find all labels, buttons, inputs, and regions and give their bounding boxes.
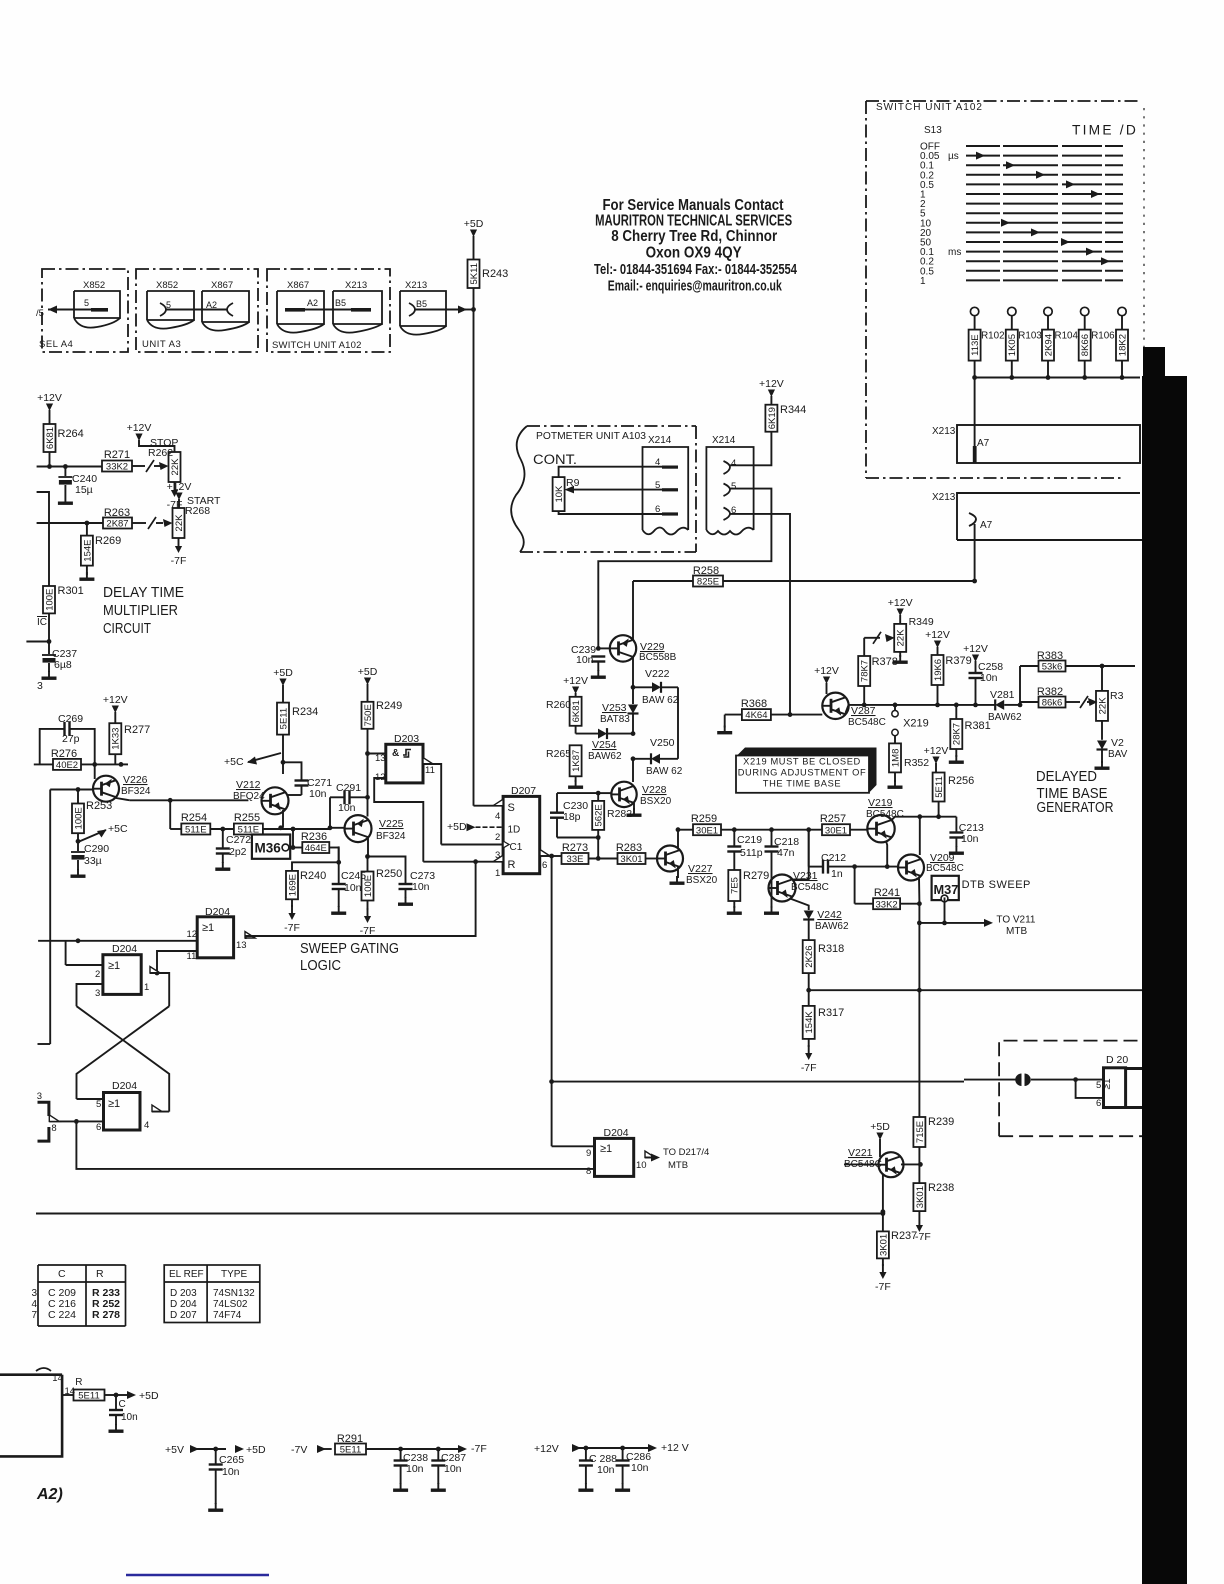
svg-text:S: S [508,802,515,814]
arrow TO V211 MTB [919,922,984,924]
svg-text:10n: 10n [597,1464,615,1476]
svg-text:10n: 10n [338,802,356,814]
resistor R352 1M8 [894,736,896,744]
svg-text:R237: R237 [891,1230,917,1242]
svg-text:BC548C: BC548C [791,882,829,893]
transistor V212 BFQ24 [282,762,284,774]
resistor R382 86k6 [1019,702,1021,705]
resistor R104 2K94 [1042,330,1054,361]
svg-text:R: R [508,859,516,871]
left spine elbow [38,1043,51,1045]
power -7F under R250 [367,908,369,916]
svg-text:+12V: +12V [925,629,950,641]
svg-text:R273: R273 [562,842,588,854]
svg-text:1n: 1n [831,868,843,880]
resistor R269 154E [86,523,88,536]
svg-text:X213: X213 [405,280,427,291]
svg-text:33µ: 33µ [84,855,102,867]
svg-text:R253: R253 [86,800,112,812]
svg-text:464E: 464E [305,843,327,854]
svg-text:D203: D203 [394,733,419,745]
ground under R279 [733,906,735,912]
svg-text:R249: R249 [376,700,402,712]
svg-text:D 207: D 207 [170,1310,197,1321]
wire node at R264 bottom [37,466,102,468]
capacitor C219 511p [733,830,735,846]
ground under C273 [405,897,407,903]
svg-text:TIME /D: TIME /D [1072,123,1138,138]
svg-text:100E: 100E [44,589,55,611]
capacitor C245 10n [338,846,340,883]
resistor R264 6K81 [44,424,56,452]
pot arrow into R262 [159,462,169,470]
diode V281 BAW62 [995,700,1004,710]
svg-text:V227: V227 [688,863,713,875]
svg-text:13: 13 [375,753,386,764]
svg-text:V222: V222 [645,668,670,680]
svg-text:≥1: ≥1 [108,1098,120,1110]
svg-text:-7F: -7F [171,555,187,567]
svg-text:µs: µs [948,151,959,162]
left spine down to sweep logic [49,790,51,1045]
wire V229 collector down [632,657,634,687]
svg-text:30E1: 30E1 [696,825,718,836]
svg-text:BC558B: BC558B [639,652,677,663]
svg-text:C290: C290 [84,843,109,855]
switch contact circle above R104 [1044,307,1052,315]
wire C230/R282 node down to R273-R283 junction [597,838,599,859]
svg-text:C272: C272 [226,834,251,846]
V226 collector to main wire [116,798,130,800]
svg-text:GENERATOR: GENERATOR [1037,799,1114,816]
blue pen mark at bottom [126,1574,269,1577]
svg-text:3K01: 3K01 [915,1186,926,1208]
V221 emitter down [882,1174,884,1231]
V212 emitter down to R255 node [282,810,284,828]
svg-text:10n: 10n [631,1462,649,1474]
svg-text:R: R [75,1377,82,1388]
resistor R344 6K19 [765,405,777,432]
wire R236 to C245 corner and R240 [292,848,339,871]
svg-text:R283: R283 [616,842,642,854]
svg-text:D204: D204 [112,943,137,955]
jumper X219 terminals [892,711,898,717]
svg-text:+12V: +12V [103,694,128,706]
gate A pin 11 wire [157,951,197,973]
svg-text:10K: 10K [554,485,565,503]
OR gate D204 D [595,1138,634,1176]
svg-text:22K: 22K [174,514,185,532]
svg-text:15µ: 15µ [75,484,93,496]
svg-text:+5D: +5D [273,667,293,679]
svg-text:A7: A7 [977,438,990,449]
svg-text:BAV: BAV [1108,749,1128,760]
wire feedthrough from left [552,1081,964,1083]
svg-text:7E5: 7E5 [730,877,741,894]
svg-text:-7F: -7F [284,922,300,934]
svg-text:R234: R234 [292,706,318,718]
wire X213.B5 to node with arrow [415,309,466,311]
svg-text:CONT.: CONT. [533,452,577,467]
svg-text:11: 11 [187,951,197,962]
svg-text:BC548C: BC548C [926,863,964,874]
wire R258 to V229 emitter [632,581,634,640]
svg-text:DTB SWEEP: DTB SWEEP [962,879,1031,891]
svg-text:19K6: 19K6 [933,659,944,681]
svg-text:R102: R102 [981,331,1004,342]
svg-text:R256: R256 [948,775,974,787]
svg-text:C: C [58,1268,66,1280]
resistor R106 8K66 [1079,330,1091,361]
svg-text:BAW62: BAW62 [815,921,849,932]
resistor R256 5E11 [933,773,945,802]
svg-text:5: 5 [655,480,660,491]
svg-text:BAW 62: BAW 62 [642,695,679,706]
wire X852.5 to X867.A2 [166,309,227,311]
capacitor C240 15u electrolytic [64,467,66,477]
svg-text:X213: X213 [932,492,956,503]
svg-text:562E: 562E [594,804,605,826]
svg-text:33K2: 33K2 [106,462,128,473]
svg-text:4: 4 [32,1299,38,1310]
ground under R269 [86,572,88,578]
resistor R236 464E [302,842,329,853]
capacitor C271 10n [283,762,302,779]
diode V253 BAT83 (vertical) [632,687,634,704]
transistor V226 BF324 [93,776,119,802]
gate B output 1 [150,967,160,974]
svg-text:+12V: +12V [963,643,988,655]
gate A output 13 wire to R node [245,932,255,939]
svg-text:1K33: 1K33 [111,728,122,750]
D203 output pin 11 to C1 [423,758,433,765]
ground left of R368 [724,715,726,728]
svg-text:3: 3 [37,680,43,692]
wire X214.5 down-left to V229 base rail [598,489,771,649]
OR gate D20x in dashed box [1104,1068,1126,1108]
table EL REF / TYPE [164,1265,260,1323]
svg-text:53k6: 53k6 [1042,662,1063,673]
svg-text:+5D: +5D [870,1121,890,1133]
svg-text:SWEEP GATING: SWEEP GATING [300,940,399,957]
wire junction down to long rail [76,1121,594,1169]
svg-text:C1: C1 [510,842,523,853]
svg-text:C: C [119,1399,126,1410]
svg-text:3K01: 3K01 [620,854,642,865]
svg-text:Oxon OX9 4QY: Oxon OX9 4QY [646,245,743,262]
svg-text:BAW 62: BAW 62 [646,766,683,777]
capacitor C230 18p [557,792,598,794]
resistor R279 7E5 [728,870,740,901]
svg-text:R318: R318 [818,943,844,955]
svg-text:2K87: 2K87 [106,519,128,530]
svg-text:V212: V212 [236,779,261,791]
dashed box bottom right [999,1041,1142,1137]
svg-text:10n: 10n [576,654,594,666]
left L-wire into delay circuit [37,492,49,586]
svg-text:5E11: 5E11 [934,776,945,797]
wire bus down to X213 connector A7 [974,378,976,447]
long bottom rail y1213 [36,1213,883,1215]
resistor R253 100E [77,790,79,804]
diode V2xx BAW62 under pot [1097,741,1107,750]
svg-text:+12V: +12V [127,422,152,434]
warning box X219 MUST BE CLOSED [737,748,877,793]
svg-text:1M8: 1M8 [890,749,901,767]
svg-text:6K19: 6K19 [767,407,778,429]
D207 pin S input wire from node B5 [474,805,504,807]
svg-text:R317: R317 [818,1007,844,1019]
svg-text:10n: 10n [344,882,362,894]
power -7F under R317 [808,1045,810,1053]
svg-text:SEL A4: SEL A4 [39,339,73,350]
svg-text:14: 14 [52,1373,63,1384]
svg-text:MTB: MTB [1006,926,1027,937]
diode V254 BAW62 [575,726,577,734]
ground under C239 [597,670,599,676]
svg-text:R279: R279 [743,870,769,882]
svg-text:5E11: 5E11 [278,708,289,729]
capacitor C213 10n [955,817,957,832]
resistor R271 33K2 [102,461,132,472]
svg-text:-7F: -7F [801,1062,817,1074]
resistor R379 19K6 [932,655,944,685]
svg-text:R255: R255 [234,812,260,824]
wire C212 to V209 base [855,866,899,868]
svg-text:R243: R243 [482,268,508,280]
svg-text:BSX20: BSX20 [686,875,718,886]
capacitor C239 10n [596,646,601,651]
svg-text:R103: R103 [1018,331,1042,342]
svg-text:1: 1 [144,982,149,993]
svg-text:1K87: 1K87 [571,750,582,772]
resistor R241 33K2 [854,867,856,904]
svg-text:22K: 22K [170,458,181,476]
svg-text:R260: R260 [546,699,571,711]
svg-text:6: 6 [655,504,660,515]
svg-text:2K94: 2K94 [1043,334,1054,356]
V219 emitter to V209 base node [886,841,887,867]
resistor R240 169E [286,871,298,899]
svg-text:R240: R240 [300,870,326,882]
svg-text:+5D: +5D [246,1444,266,1456]
svg-text:+5D: +5D [139,1390,159,1402]
svg-text:8K66: 8K66 [1080,334,1091,356]
long wire node B5 down to D207 S input [473,310,475,806]
main wire V226 to V212 base [170,799,248,801]
transistor V225 BF324 [345,815,372,842]
svg-text:EL REF: EL REF [169,1269,204,1280]
svg-text:6K81: 6K81 [571,700,582,722]
resistor R282 562E [597,793,599,801]
svg-text:5: 5 [731,481,736,492]
svg-text:8: 8 [51,1123,56,1134]
diode V250 BAW62 [631,756,636,761]
svg-text:+5D: +5D [464,218,484,230]
V287 emitter to main DTB rail [846,705,849,713]
svg-text:R258: R258 [693,565,719,577]
svg-text:3: 3 [37,1091,42,1102]
svg-text:8: 8 [586,1166,591,1177]
svg-text:For Service Manuals Contact: For Service Manuals Contact [603,197,784,214]
svg-text:X214: X214 [648,435,672,446]
resistor R243 5K11 [468,260,480,289]
svg-text:+5D: +5D [358,666,378,678]
svg-text:LOGIC: LOGIC [300,957,341,974]
svg-text:R264: R264 [58,428,84,440]
gate C pin 5 wire [77,1098,104,1100]
diode V222 BAW62 [633,686,652,688]
svg-text:A2: A2 [206,300,217,310]
svg-text:S13: S13 [924,125,942,136]
svg-text:511E: 511E [185,825,206,836]
dashed unit box SWITCH UNIT A102 (small) [267,269,390,352]
svg-text:≥1: ≥1 [600,1143,612,1155]
R378 wire up to R349 wiper [863,638,865,656]
wire V253 rail down to V228 [632,759,634,782]
wire X867.A2 to X213.B5 [285,309,371,311]
svg-text:D204: D204 [604,1127,629,1139]
svg-text:4: 4 [495,811,500,822]
resistor R283 3K01 [618,853,646,864]
potentiometer R9 10K [553,477,565,511]
svg-text:-7F: -7F [915,1231,931,1243]
V221 collector wire [901,1163,919,1165]
delay line M37 box DTB SWEEP [932,876,959,900]
svg-text:5E11: 5E11 [340,1445,361,1456]
V219 collector rail [891,817,956,821]
svg-text:1K05: 1K05 [1007,334,1018,356]
wire C291 left to R255 node [329,797,331,828]
svg-text:TO D217/4: TO D217/4 [663,1147,709,1158]
svg-text:BC548C: BC548C [866,809,904,820]
svg-text:R269: R269 [95,535,121,547]
svg-text:D204: D204 [205,906,230,918]
svg-text:R239: R239 [928,1116,954,1128]
svg-text:V281: V281 [990,689,1015,701]
V209 collector wire [919,817,921,855]
svg-text:8 Cherry Tree Rd, Chinnor: 8 Cherry Tree Rd, Chinnor [611,228,777,245]
svg-text:3: 3 [95,988,100,999]
svg-text:R106: R106 [1091,331,1115,342]
svg-text:R263: R263 [104,507,130,519]
resistor R250 100E [367,857,369,872]
svg-text:Tel:- 01844-351694 Fax:- 01844: Tel:- 01844-351694 Fax:- 01844-352554 [594,262,797,278]
switch contact circle above R103 [1008,307,1016,315]
switch contact circle above R106 [1081,307,1089,315]
switch contact circle above R107 [1118,307,1126,315]
+5C tap at C290 [76,839,81,844]
svg-text:2: 2 [95,969,100,980]
svg-text:V2: V2 [1111,737,1124,749]
resistor R259 30E1 [678,829,693,831]
svg-text:D 20: D 20 [1106,1054,1128,1066]
capacitor C212 1n [808,830,810,867]
power -7F under R268 [178,538,180,546]
svg-text:M36: M36 [255,841,282,856]
svg-text:12: 12 [187,929,198,940]
resistor R381 28K7 [955,705,957,719]
svg-text:154K: 154K [804,1011,815,1034]
svg-text:R368: R368 [741,698,767,710]
svg-text:R276: R276 [51,748,77,760]
svg-text:-7F: -7F [167,499,183,511]
svg-text:74SN132: 74SN132 [213,1288,255,1299]
svg-text:A2: A2 [307,298,318,308]
svg-text:22K: 22K [1097,697,1108,715]
svg-text:11: 11 [425,765,435,776]
long wire R318 node to right [809,989,1142,991]
svg-text:V226: V226 [123,774,148,786]
svg-text:33E: 33E [567,854,584,865]
ground under C245 [338,906,340,912]
capacitor C290 33u electrolytic [77,841,79,851]
latch cross wire 2 [77,1006,170,1111]
svg-text:5: 5 [1096,1080,1101,1091]
V226 base wire and left spine [50,789,93,791]
D207 pin R input wire [423,861,503,863]
svg-text:715E: 715E [915,1121,926,1143]
svg-text:2p2: 2p2 [229,846,247,858]
dashed border SWITCH UNIT A102 (big) [866,100,1140,102]
transistor V221 BC548C [879,1152,904,1177]
resistor R234 5E11 [277,703,289,735]
V231 collector wire to rail [792,830,809,880]
svg-text:47n: 47n [777,847,795,859]
svg-text:X852: X852 [83,280,105,291]
gate D20x output stubs [1126,1067,1143,1070]
trimpot R349 22K [894,624,906,652]
svg-text:3: 3 [32,1288,38,1299]
V228 base node wire [598,792,611,794]
power -7F under R237 [882,1264,884,1272]
svg-text:A2): A2) [36,1486,63,1503]
svg-text:X867: X867 [211,280,233,291]
svg-text:+12V: +12V [924,745,949,757]
svg-text:113E: 113E [970,334,981,355]
svg-text:+12V: +12V [759,378,784,390]
svg-text:B5: B5 [416,299,427,309]
svg-text:+5D: +5D [447,821,467,833]
gate D output 10 arrow TO D217/4 [645,1151,655,1158]
svg-text:78K7: 78K7 [860,660,871,682]
partial gate at page edge output 8 [38,1102,49,1116]
svg-text:86k6: 86k6 [1042,698,1063,709]
svg-text:10n: 10n [412,881,430,893]
resistor R258 825E [633,580,693,582]
node A wire up to R383 [1019,666,1021,705]
svg-text:1: 1 [495,868,500,879]
svg-text:+12V: +12V [534,1443,559,1455]
svg-text:R268: R268 [185,505,210,517]
power -7F under R262 [174,482,176,490]
svg-text:BF324: BF324 [376,831,406,842]
svg-text:-7F: -7F [875,1281,891,1293]
svg-text:+12V: +12V [888,597,913,609]
svg-text:750E: 750E [363,704,374,726]
svg-text:B5: B5 [335,298,346,308]
ground under R265 [575,780,577,786]
resistor R263 2K87 [103,518,132,529]
gate D pin 9 wire [552,1145,595,1147]
wire X213.A7 down to R258 node [974,524,976,581]
capacitor C273 10n [368,857,406,884]
svg-text:SWITCH UNIT A102: SWITCH UNIT A102 [272,340,362,351]
svg-text:POTMETER UNIT A103: POTMETER UNIT A103 [536,431,646,442]
svg-text:+12V: +12V [563,675,588,687]
flip-flop D207 74F74 [503,796,540,873]
resistor R107 18K2 [1116,330,1128,361]
